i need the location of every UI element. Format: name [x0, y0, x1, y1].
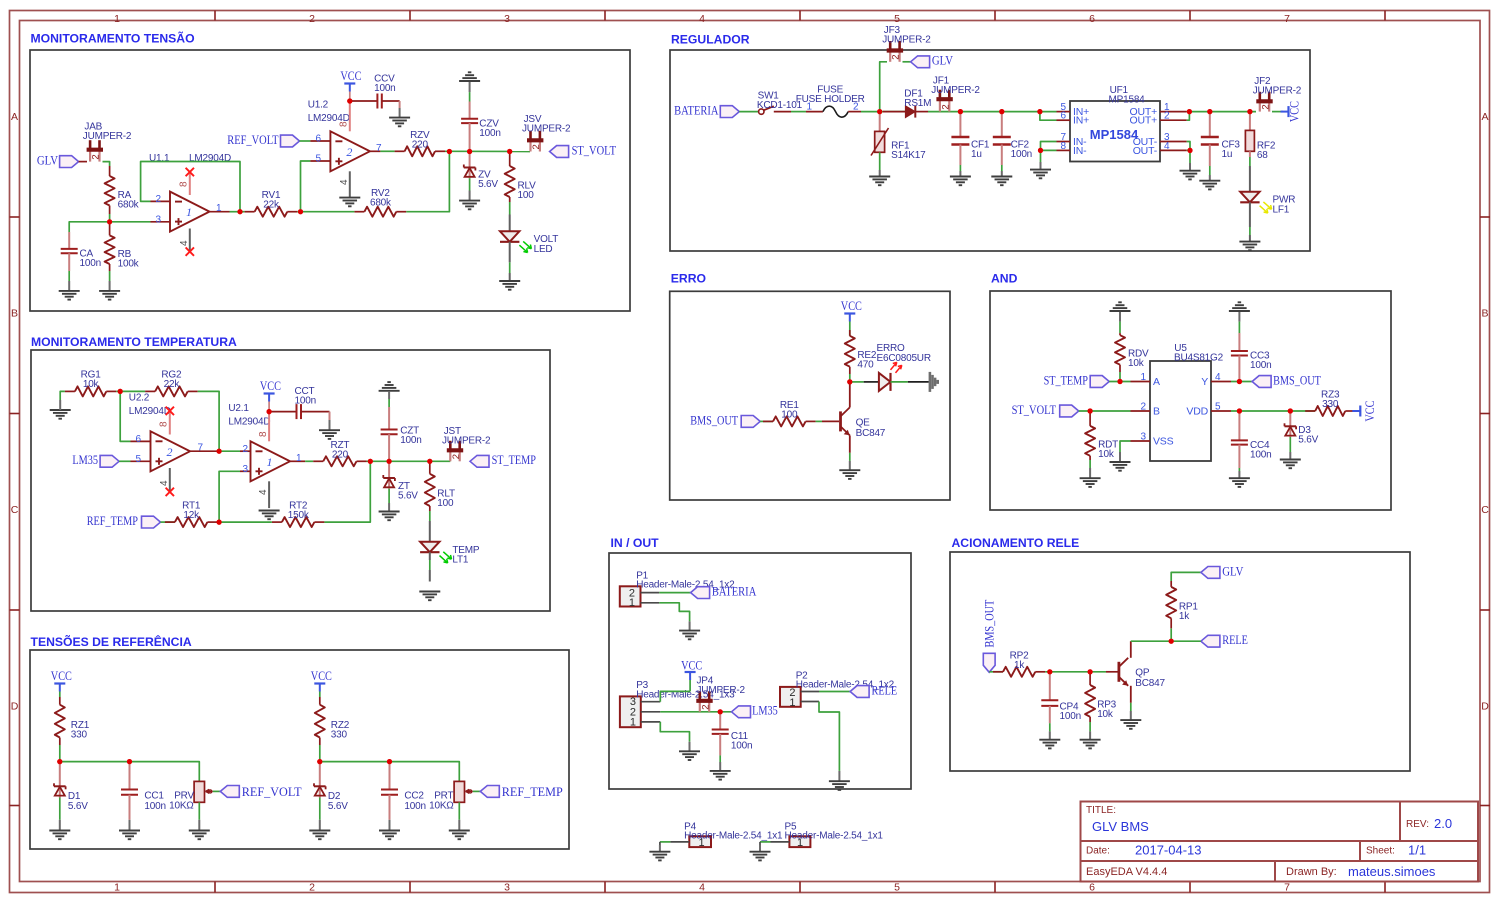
label P1 Header-Male-2.54_1x2 — [636, 570, 735, 590]
svg-text:JUMPER-2: JUMPER-2 — [697, 685, 746, 696]
label RDV 10k — [1128, 349, 1149, 370]
svg-text:1: 1 — [629, 597, 635, 609]
svg-text:GLV: GLV — [932, 54, 953, 68]
junction node RA RB CA pin3 — [107, 219, 112, 224]
title block border — [1081, 802, 1479, 882]
svg-text:3: 3 — [155, 214, 161, 225]
svg-text:LM35: LM35 — [752, 704, 778, 718]
svg-text:1k: 1k — [1179, 611, 1190, 622]
frame row letters right — [1481, 111, 1489, 713]
svg-text:5.6V: 5.6V — [478, 179, 498, 190]
svg-text:1: 1 — [789, 697, 795, 709]
svg-text:ST_TEMP: ST_TEMP — [1044, 373, 1089, 387]
resistor RDT 10k — [1085, 411, 1095, 460]
resistor RT1 12k — [165, 517, 218, 527]
svg-text:10k: 10k — [1098, 449, 1115, 460]
junction RLV node — [507, 149, 512, 154]
resistor RB 100k — [105, 222, 115, 271]
wire U1.2 output to RZV — [380, 150, 394, 152]
junction RZT node — [368, 459, 373, 464]
svg-text:BMS_OUT: BMS_OUT — [1273, 373, 1321, 387]
svg-text:68: 68 — [1257, 150, 1268, 161]
label JP4 JUMPER-2 — [697, 676, 746, 697]
zener diode D3 5.6V — [1285, 411, 1297, 452]
inverted ground CZT top — [379, 382, 400, 399]
net flag ST_TEMP input and — [1044, 373, 1110, 387]
svg-text:E6C0805UR: E6C0805UR — [877, 353, 931, 364]
label RV2 680k — [370, 188, 392, 209]
svg-text:ST_TEMP: ST_TEMP — [492, 453, 537, 467]
pin 6 lead UF1 IN+ — [1057, 111, 1090, 127]
svg-text:1k: 1k — [1014, 660, 1025, 671]
ground UF1 IN- — [1030, 162, 1051, 178]
svg-text:1: 1 — [114, 882, 120, 894]
net flag GLV input — [37, 154, 79, 168]
IC UF1 MP1584 box — [1070, 101, 1160, 162]
junction U1.1 output — [237, 209, 242, 214]
resistor RZT 220 — [313, 456, 366, 466]
wire U2.2 output to U2.1 pin2 — [219, 450, 240, 452]
junction RF1 JF3 node — [877, 109, 882, 114]
net flag LM35 input — [72, 453, 119, 467]
wire RLT to LED TEMP — [429, 511, 431, 542]
junction CF2 node — [999, 109, 1004, 114]
header P1 Header-Male-2.54_1x2 — [620, 586, 641, 609]
svg-text:4: 4 — [1215, 372, 1221, 383]
wire node to LED ERRO — [850, 381, 879, 383]
pin 2 lead U1.1 — [151, 200, 171, 202]
pin 4 U1.1 no-connect — [179, 229, 194, 256]
wire RE1 to QE base — [816, 420, 839, 422]
label P3 Header-Male-2.54_1x3 — [636, 680, 735, 700]
junction RELE node — [1169, 639, 1174, 644]
label ZT 5.6V — [398, 481, 418, 502]
op-amp U2.1 LM2904D — [251, 441, 291, 481]
svg-text:1: 1 — [186, 205, 192, 219]
svg-text:REF_TEMP: REF_TEMP — [502, 785, 563, 799]
header P5 Header-Male-2.54_1x1 — [789, 836, 810, 849]
label RDT 10k — [1098, 440, 1118, 461]
label RG1 10k — [81, 370, 102, 391]
label CC2 100n — [404, 791, 425, 812]
svg-text:100n: 100n — [1250, 450, 1271, 461]
ground U1.2 pin4 — [339, 197, 360, 199]
zener diode D2 5.6V — [314, 762, 326, 820]
ground LED PWR — [1239, 241, 1260, 243]
wire BMS_OUT to RE1 — [760, 420, 773, 422]
svg-text:BATERIA: BATERIA — [712, 585, 757, 599]
svg-text:QE: QE — [856, 417, 871, 428]
svg-text:4: 4 — [159, 480, 170, 486]
ground P2 — [829, 771, 850, 790]
junction VCC CCT pin8 — [267, 409, 272, 414]
svg-text:2: 2 — [242, 444, 248, 455]
section box ERRO — [670, 291, 950, 500]
svg-text:100n: 100n — [479, 128, 500, 139]
wire DF1 to JF1 — [928, 111, 960, 113]
section box MONITORAMENTO TENSAO — [30, 50, 630, 311]
wire RG2 to U2.2 output node — [198, 391, 219, 451]
svg-text:OUT-: OUT- — [1133, 145, 1158, 157]
pin 8 U2.2 no-connect — [159, 407, 175, 435]
junction IN- ground node — [1038, 148, 1043, 153]
resistor RLT 100 — [425, 461, 435, 511]
svg-text:S14K17: S14K17 — [891, 150, 926, 161]
svg-text:LT1: LT1 — [452, 554, 469, 565]
wire CA to ground — [68, 271, 70, 281]
svg-text:2: 2 — [891, 55, 902, 60]
LED VOLT — [500, 231, 531, 252]
wire U1.1 output to RV1 — [230, 211, 245, 213]
svg-text:A: A — [1153, 376, 1160, 388]
junction CF1 node — [958, 109, 963, 114]
wire LED TEMP to ground — [429, 552, 431, 581]
frame column numbers bottom — [114, 882, 1290, 894]
svg-text:ST_VOLT: ST_VOLT — [1012, 403, 1057, 417]
wire P3 pin2 LM35 rail — [660, 711, 731, 713]
ground P1 — [679, 621, 700, 639]
ground C11 — [710, 762, 731, 780]
svg-text:5: 5 — [894, 882, 900, 894]
svg-text:QP: QP — [1135, 667, 1150, 678]
svg-text:4: 4 — [699, 882, 705, 894]
svg-text:7: 7 — [1284, 882, 1290, 894]
svg-text:Y: Y — [1201, 376, 1208, 388]
label RZ3 330 — [1321, 389, 1340, 410]
label CA 100n — [80, 249, 101, 270]
net flag REF_VOLT input to U1.2 — [227, 133, 299, 147]
label RF1 S14K17 — [891, 140, 926, 161]
capacitor C11 100n — [712, 712, 729, 762]
wire node up to JF3 — [880, 62, 887, 112]
label RT2 150k — [288, 500, 310, 521]
inverted ground CZV top — [459, 72, 480, 92]
svg-text:AND: AND — [991, 272, 1018, 286]
svg-text:2: 2 — [700, 705, 711, 710]
svg-text:REF_VOLT: REF_VOLT — [227, 133, 279, 147]
ground CF2 — [991, 171, 1012, 185]
wire node to RV2 — [301, 211, 355, 213]
svg-text:150k: 150k — [288, 510, 310, 521]
diode DF1 RS1M — [883, 106, 928, 118]
svg-text:VCC: VCC — [311, 669, 332, 683]
svg-text:REF_TEMP: REF_TEMP — [87, 514, 138, 528]
label U2.1 LM2904D — [228, 403, 270, 427]
svg-text:7: 7 — [1284, 13, 1290, 25]
net flag LM35 inout — [732, 704, 778, 718]
label P5 Header-Male-2.54_1x1 — [785, 821, 884, 841]
junction U2.2 output — [217, 449, 222, 454]
svg-text:VDD: VDD — [1186, 406, 1208, 418]
svg-text:12k: 12k — [183, 510, 200, 521]
pin 6 lead U2.2 — [131, 440, 151, 442]
junction RF2 node — [1247, 109, 1252, 114]
junction RLT node — [427, 459, 432, 464]
label RE2 470 — [857, 350, 876, 371]
wire node to U1.2 pin5 — [301, 161, 311, 212]
label U2.2 LM2904D — [129, 393, 171, 417]
svg-text:VCC: VCC — [1363, 401, 1377, 422]
capacitor CA 100n — [61, 232, 78, 271]
label CCV 100n — [374, 73, 395, 94]
op-amp U1.2 LM2904D — [330, 131, 370, 171]
label DF1 RS1M — [904, 89, 931, 110]
svg-text:4: 4 — [1164, 141, 1170, 152]
ground CF1 — [950, 171, 971, 185]
svg-text:1: 1 — [630, 716, 636, 728]
junction RE2 LED collector node — [847, 379, 852, 384]
wire CCV to ground — [399, 101, 401, 108]
label UF1 MP1584 — [1109, 85, 1146, 106]
wire base lead QP — [1106, 671, 1118, 673]
resistor RZ1 330 — [55, 697, 65, 745]
svg-text:7: 7 — [376, 143, 382, 154]
wire node to U2.2 pin6 — [120, 391, 130, 441]
ground CP4 — [1039, 731, 1060, 748]
label TEMP LT1 — [452, 545, 480, 566]
wire RDT to ground — [1089, 460, 1091, 468]
svg-text:1: 1 — [1140, 372, 1146, 383]
pin 1 lead U5 A — [1131, 372, 1161, 388]
svg-text:10k: 10k — [1097, 709, 1114, 720]
ground CC4 — [1229, 471, 1250, 487]
svg-text:U2.1: U2.1 — [228, 403, 249, 414]
wire RA to node pin3 — [109, 214, 111, 222]
label RZ1 330 — [71, 720, 90, 741]
pin 4 U2.1 to ground — [258, 481, 269, 508]
label D1 5.6V — [68, 791, 88, 812]
pin 7 output lead U1.2 — [370, 150, 381, 152]
svg-text:BU4S81G2: BU4S81G2 — [1174, 352, 1224, 363]
pin 4 lead UF1 OUT- — [1133, 141, 1187, 157]
label U1.2 LM2904D — [308, 100, 350, 124]
ground CC1 — [119, 820, 140, 839]
svg-text:5.6V: 5.6V — [398, 490, 418, 501]
svg-text:2: 2 — [1140, 402, 1146, 413]
wire RF2 to LED PWR — [1249, 157, 1251, 192]
net flag RELE inout — [850, 683, 897, 697]
svg-text:JUMPER-2: JUMPER-2 — [1253, 86, 1302, 97]
svg-text:VCC: VCC — [340, 69, 361, 83]
svg-text:5.6V: 5.6V — [1298, 434, 1318, 445]
net flag BATERIA input — [674, 104, 739, 118]
pin 6 lead U1.2 — [310, 140, 330, 142]
svg-text:BC847: BC847 — [1135, 678, 1165, 689]
svg-text:C: C — [1481, 504, 1489, 516]
wire inverted ground to CZV — [469, 92, 471, 101]
op-amp U1.1 LM2904D — [170, 192, 210, 232]
resistor RP1 1k — [1166, 581, 1176, 641]
svg-text:2: 2 — [1164, 111, 1170, 122]
potentiometer PRT 10K — [454, 781, 464, 819]
svg-text:2: 2 — [940, 104, 951, 109]
ground RG1 — [50, 400, 71, 419]
svg-text:1: 1 — [296, 453, 302, 464]
resistor RG2 22k — [145, 386, 198, 396]
svg-text:5: 5 — [1215, 402, 1221, 413]
resistor RG1 10k — [65, 386, 116, 396]
resistor RDV 10k — [1115, 333, 1125, 372]
junction OUT+ node 1 — [1187, 109, 1192, 114]
junction RP3 node — [1088, 669, 1093, 674]
pin 1 output lead U1.1 — [210, 211, 230, 213]
svg-text:VCC: VCC — [841, 299, 862, 313]
svg-text:BC847: BC847 — [856, 428, 886, 439]
ground UF1 OUT- — [1180, 163, 1201, 179]
label RG2 22k — [161, 370, 182, 391]
label ERRO E6C0805UR — [877, 343, 931, 364]
svg-text:8: 8 — [159, 421, 170, 427]
label D2 5.6V — [328, 791, 348, 812]
power flag VCC inout — [681, 658, 702, 691]
svg-text:REF_VOLT: REF_VOLT — [242, 785, 302, 799]
wire RP1 to GLV — [1171, 572, 1201, 581]
wire LED PWR to ground — [1249, 202, 1251, 241]
svg-text:VCC: VCC — [260, 379, 281, 393]
svg-text:LM35: LM35 — [72, 453, 98, 467]
svg-text:JUMPER-2: JUMPER-2 — [442, 436, 491, 447]
svg-text:8: 8 — [339, 121, 350, 127]
power flag VCC reference 1 — [51, 669, 72, 697]
wire ground to RG1 — [60, 391, 65, 400]
svg-text:5.6V: 5.6V — [68, 801, 88, 812]
pin 2 lead UF1 OUT+ — [1130, 111, 1187, 127]
svg-text:4: 4 — [179, 240, 190, 246]
junction ST_TEMP RDV pin1 — [1117, 379, 1122, 384]
svg-text:2: 2 — [853, 101, 859, 112]
wire U1.1 feedback loop — [141, 162, 240, 212]
label P4 Header-Male-2.54_1x1 — [684, 821, 783, 841]
label VOLT LED — [534, 234, 559, 255]
wire JF3 to GLV flag — [903, 61, 911, 63]
svg-text:5: 5 — [315, 154, 321, 165]
jumper JF3 — [887, 41, 903, 62]
wire QP collector to RELE node — [1131, 640, 1171, 642]
svg-text:LM2904D: LM2904D — [228, 416, 270, 427]
label C11 100n — [731, 731, 752, 752]
label D3 5.6V — [1298, 425, 1318, 446]
net flag ST_VOLT input and — [1012, 403, 1079, 417]
svg-text:TENSÕES DE REFERÊNCIA: TENSÕES DE REFERÊNCIA — [31, 634, 192, 649]
wire RZT to ST_TEMP rail — [367, 460, 451, 462]
junction CZT ZT node — [387, 459, 392, 464]
svg-text:2: 2 — [531, 144, 542, 149]
label CC3 100n — [1250, 351, 1271, 372]
wire RZ1 to node — [59, 745, 61, 762]
ground RDT — [1080, 468, 1101, 487]
wire LM35 to pin5 — [119, 460, 130, 462]
switch SW1 KCD1-101 — [759, 106, 791, 114]
label RF2 68 — [1257, 141, 1276, 162]
wire inverted ground to CZT — [388, 399, 390, 407]
header P2 Header-Male-2.54_1x2 — [780, 687, 801, 709]
wire P2 pin1 to ground — [819, 702, 839, 771]
fuse FUSE HOLDER — [806, 106, 861, 117]
ground P5 — [750, 845, 771, 860]
label JF3 JUMPER-2 — [882, 25, 931, 46]
wire node to RELE flag — [1171, 640, 1201, 642]
wire RB to ground — [109, 271, 111, 281]
wire P1 pin2 to BATERIA — [659, 592, 690, 594]
ground RF1 — [869, 170, 890, 185]
svg-text:2: 2 — [346, 145, 352, 159]
pin 5 lead U5 VDD — [1186, 402, 1231, 418]
wire QP emitter to ground — [1130, 703, 1132, 711]
zener diode ZV 5.6V — [464, 152, 476, 191]
label P2 Header-Male-2.54_1x2 — [796, 670, 895, 690]
inverted ground CC3 top — [1229, 302, 1250, 321]
svg-text:2: 2 — [155, 194, 161, 205]
junction RG1 RG2 pin6 — [118, 389, 123, 394]
svg-text:TITLE:: TITLE: — [1086, 805, 1116, 816]
ground RP3 — [1080, 731, 1101, 748]
label ZV 5.6V — [478, 170, 498, 191]
pin 1 lead UF1 OUT+ — [1130, 102, 1187, 118]
transistor QP BC847 — [1119, 641, 1131, 703]
svg-text:REV:: REV: — [1406, 819, 1429, 830]
potentiometer PRV 10K — [194, 781, 204, 819]
pin 8 U1.2 to VCC — [339, 101, 350, 131]
label FUSE FUSE HOLDER — [796, 84, 865, 105]
wire node to RT2 — [219, 521, 272, 523]
wire SW1 to FUSE — [791, 111, 806, 113]
ground CCV — [389, 108, 410, 126]
svg-text:RS1M: RS1M — [904, 98, 931, 109]
wire RG1 to node — [116, 390, 120, 392]
capacitor CF2 100n — [993, 112, 1011, 171]
capacitor CZT 100n — [381, 407, 398, 461]
wire node to UF1 pin5 — [1040, 111, 1057, 113]
pin leads P3 — [641, 702, 661, 722]
svg-text:VCC: VCC — [51, 669, 72, 683]
label CZV 100n — [479, 118, 500, 138]
pin 3 lead U1.1 — [151, 221, 171, 223]
capacitor CCT 100n — [269, 404, 329, 419]
wire RT2 to output node — [324, 461, 370, 522]
LED PWR LF1 — [1240, 192, 1271, 213]
svg-text:330: 330 — [331, 729, 348, 740]
svg-text:JUMPER-2: JUMPER-2 — [931, 85, 980, 96]
label CCT 100n — [295, 386, 316, 407]
label SW1 KCD1-101 — [757, 90, 803, 110]
transistor QE BC847 — [841, 382, 850, 453]
title block dividers — [1081, 802, 1479, 882]
svg-text:BATERIA: BATERIA — [674, 104, 719, 118]
svg-text:U1.2: U1.2 — [308, 100, 329, 111]
label RP1 1k — [1179, 601, 1198, 622]
ground LED TEMP — [419, 591, 440, 593]
label CC1 100n — [144, 791, 165, 812]
pin 7 lead UF1 IN- — [1057, 132, 1088, 148]
svg-text:3: 3 — [242, 464, 248, 475]
wire JAB to RA — [103, 162, 110, 166]
svg-text:IN / OUT: IN / OUT — [611, 536, 660, 550]
wire Y to BMS_OUT — [1231, 381, 1252, 383]
label RA 680k — [118, 190, 140, 211]
junction RV1 RV2 pin5 node — [298, 209, 303, 214]
label RZV 220 — [410, 130, 430, 151]
svg-text:330: 330 — [71, 729, 88, 740]
svg-text:2.0: 2.0 — [1434, 816, 1452, 831]
svg-text:A: A — [11, 111, 18, 123]
inverted ground RDV top — [1110, 302, 1131, 321]
ground P3 pin1 — [679, 742, 700, 760]
wire VDD rail to RZ3 — [1231, 410, 1315, 412]
wire REF_TEMP to RT1 — [161, 521, 175, 523]
svg-text:BMS_OUT: BMS_OUT — [690, 413, 738, 427]
svg-text:100n: 100n — [144, 801, 165, 812]
svg-text:D: D — [1481, 701, 1489, 713]
